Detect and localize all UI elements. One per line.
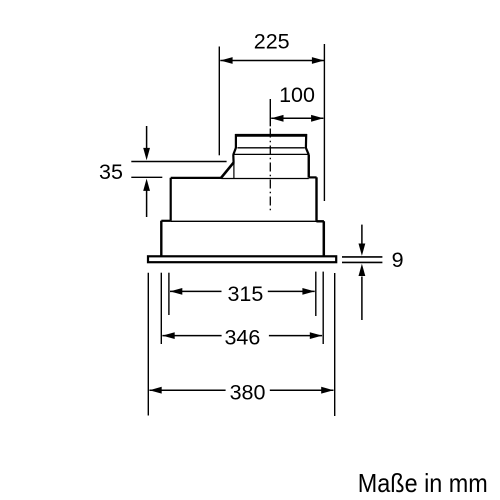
dimension 225 left extension line [218, 47, 220, 156]
hood mid box left edge [170, 178, 172, 221]
dimension 9 up arrowhead [359, 264, 366, 276]
duct collar flare top edge [237, 147, 304, 149]
dimension 315 left arrowhead [170, 288, 182, 295]
dimension 35 lower leader line [131, 176, 162, 178]
svg-text:35: 35 [99, 160, 123, 184]
lower box ledge left [161, 220, 171, 222]
duct collar right wall lower [308, 155, 310, 178]
dimension 9 lower leader line [342, 261, 382, 263]
duct collar left wall lower [232, 155, 235, 163]
hood top back edge [221, 178, 308, 180]
lower box left edge [160, 221, 162, 256]
dimension 9 upper leader line [342, 256, 382, 258]
dimension 315 line right segment [268, 290, 315, 292]
duct collar top rim [235, 134, 307, 137]
duct collar right wall [305, 134, 308, 148]
dimension 346 line left segment [162, 335, 221, 337]
mounting flange plate [148, 256, 336, 262]
lower box back edge [171, 220, 317, 222]
dimension 346 left extension line [160, 273, 162, 344]
hood top edge right [309, 176, 317, 178]
dimension 380 line left segment [149, 389, 225, 391]
dimension 9 down arrowhead [359, 244, 366, 256]
dimension 225 right arrowhead [312, 57, 324, 64]
collar front edge thin [233, 163, 235, 179]
duct collar flare left [233, 148, 236, 155]
duct collar left wall [235, 134, 237, 148]
dimension 225 left arrowhead [220, 57, 232, 64]
dimension 100 line [271, 117, 323, 119]
dimension 35 up arrow shaft [146, 190, 148, 217]
duct center line dash-dot [269, 129, 271, 214]
dimension 35 down arrowhead [143, 148, 150, 160]
svg-text:380: 380 [230, 381, 266, 405]
dimension 380 right extension line [334, 273, 336, 416]
dimension 9 down arrow shaft [361, 225, 363, 245]
svg-text:346: 346 [224, 325, 260, 349]
dimension 346 left arrowhead [162, 332, 174, 339]
dimension 346 right arrowhead [310, 332, 322, 339]
dimension 225 line [220, 60, 324, 62]
svg-text:225: 225 [254, 30, 290, 54]
hood top edge left [171, 177, 222, 179]
dimension 315 right extension line [315, 272, 317, 316]
lower box right edge [323, 221, 326, 256]
duct collar flare right [306, 148, 309, 155]
dimension 100 right arrowhead [311, 115, 323, 122]
collar base slant [221, 162, 234, 177]
dimension 100 left arrowhead [271, 115, 283, 122]
dimension 380 left extension line [147, 273, 149, 416]
dimension 346 right extension line [322, 272, 324, 344]
hood mid box right edge [315, 177, 317, 220]
dimension 35 upper leader line [131, 161, 226, 163]
svg-text:315: 315 [227, 282, 263, 306]
dimension 315 right arrowhead [302, 288, 314, 295]
dimension 380 right arrowhead [321, 387, 333, 394]
dimension 35 up arrowhead [143, 179, 150, 191]
dimension 9 up arrow shaft [361, 277, 363, 321]
dimension 315 left extension line [168, 273, 170, 315]
lower box ledge right [316, 220, 324, 222]
duct center line solid segment [269, 99, 271, 126]
dimension 346 line right segment [269, 335, 322, 337]
svg-text:9: 9 [392, 248, 404, 272]
svg-text:Maße in mm: Maße in mm [358, 468, 488, 498]
dimension 380 line right segment [270, 389, 334, 391]
dimension 35 down arrow shaft [146, 126, 148, 149]
duct collar flare bottom edge [233, 153, 309, 155]
svg-text:100: 100 [279, 83, 315, 107]
dimension 225 right extension line [323, 44, 325, 201]
dimension 315 line left segment [170, 290, 222, 292]
dimension 380 left arrowhead [149, 387, 161, 394]
